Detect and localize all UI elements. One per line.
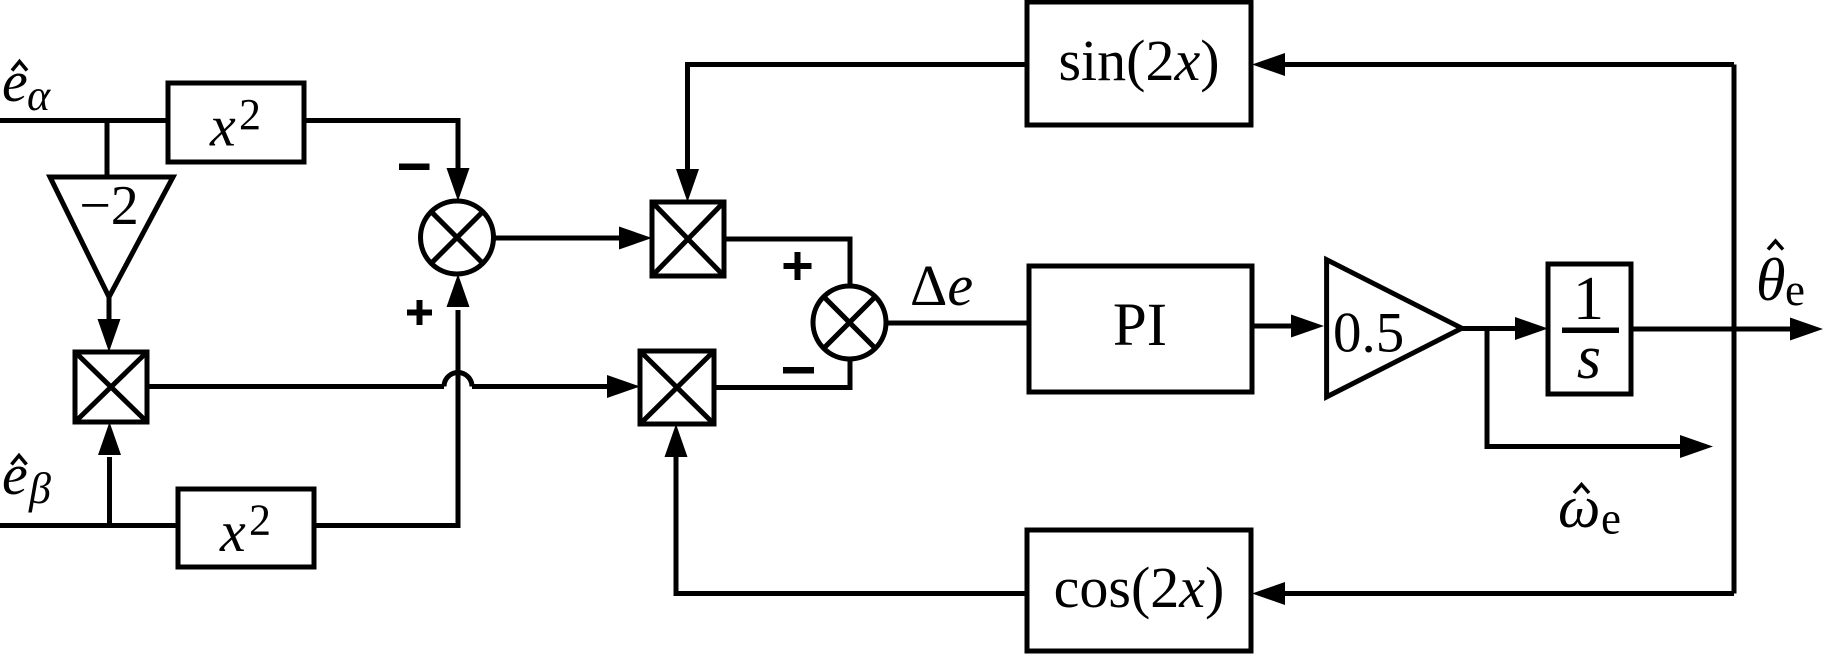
svg-text:x: x [209, 94, 236, 159]
svg-text:−2: −2 [79, 175, 139, 237]
svg-text:e: e [2, 442, 28, 507]
svg-text:0.5: 0.5 [1333, 302, 1404, 365]
svg-text:1: 1 [1573, 265, 1604, 333]
svg-text:cos(2x): cos(2x) [1054, 555, 1225, 620]
svg-text:e: e [2, 49, 28, 114]
svg-text:Δe: Δe [910, 253, 973, 318]
svg-text:e: e [1785, 265, 1805, 315]
svg-text:PI: PI [1113, 292, 1167, 359]
svg-text:e: e [1601, 494, 1621, 544]
svg-text:2: 2 [239, 90, 261, 139]
svg-text:θ: θ [1756, 247, 1785, 313]
svg-text:s: s [1577, 324, 1601, 392]
svg-text:x: x [219, 499, 246, 564]
svg-text:sin(2x): sin(2x) [1058, 28, 1219, 93]
svg-text:ω: ω [1558, 474, 1600, 540]
svg-text:α: α [27, 71, 51, 120]
svg-text:β: β [28, 464, 51, 513]
svg-text:2: 2 [249, 496, 271, 545]
